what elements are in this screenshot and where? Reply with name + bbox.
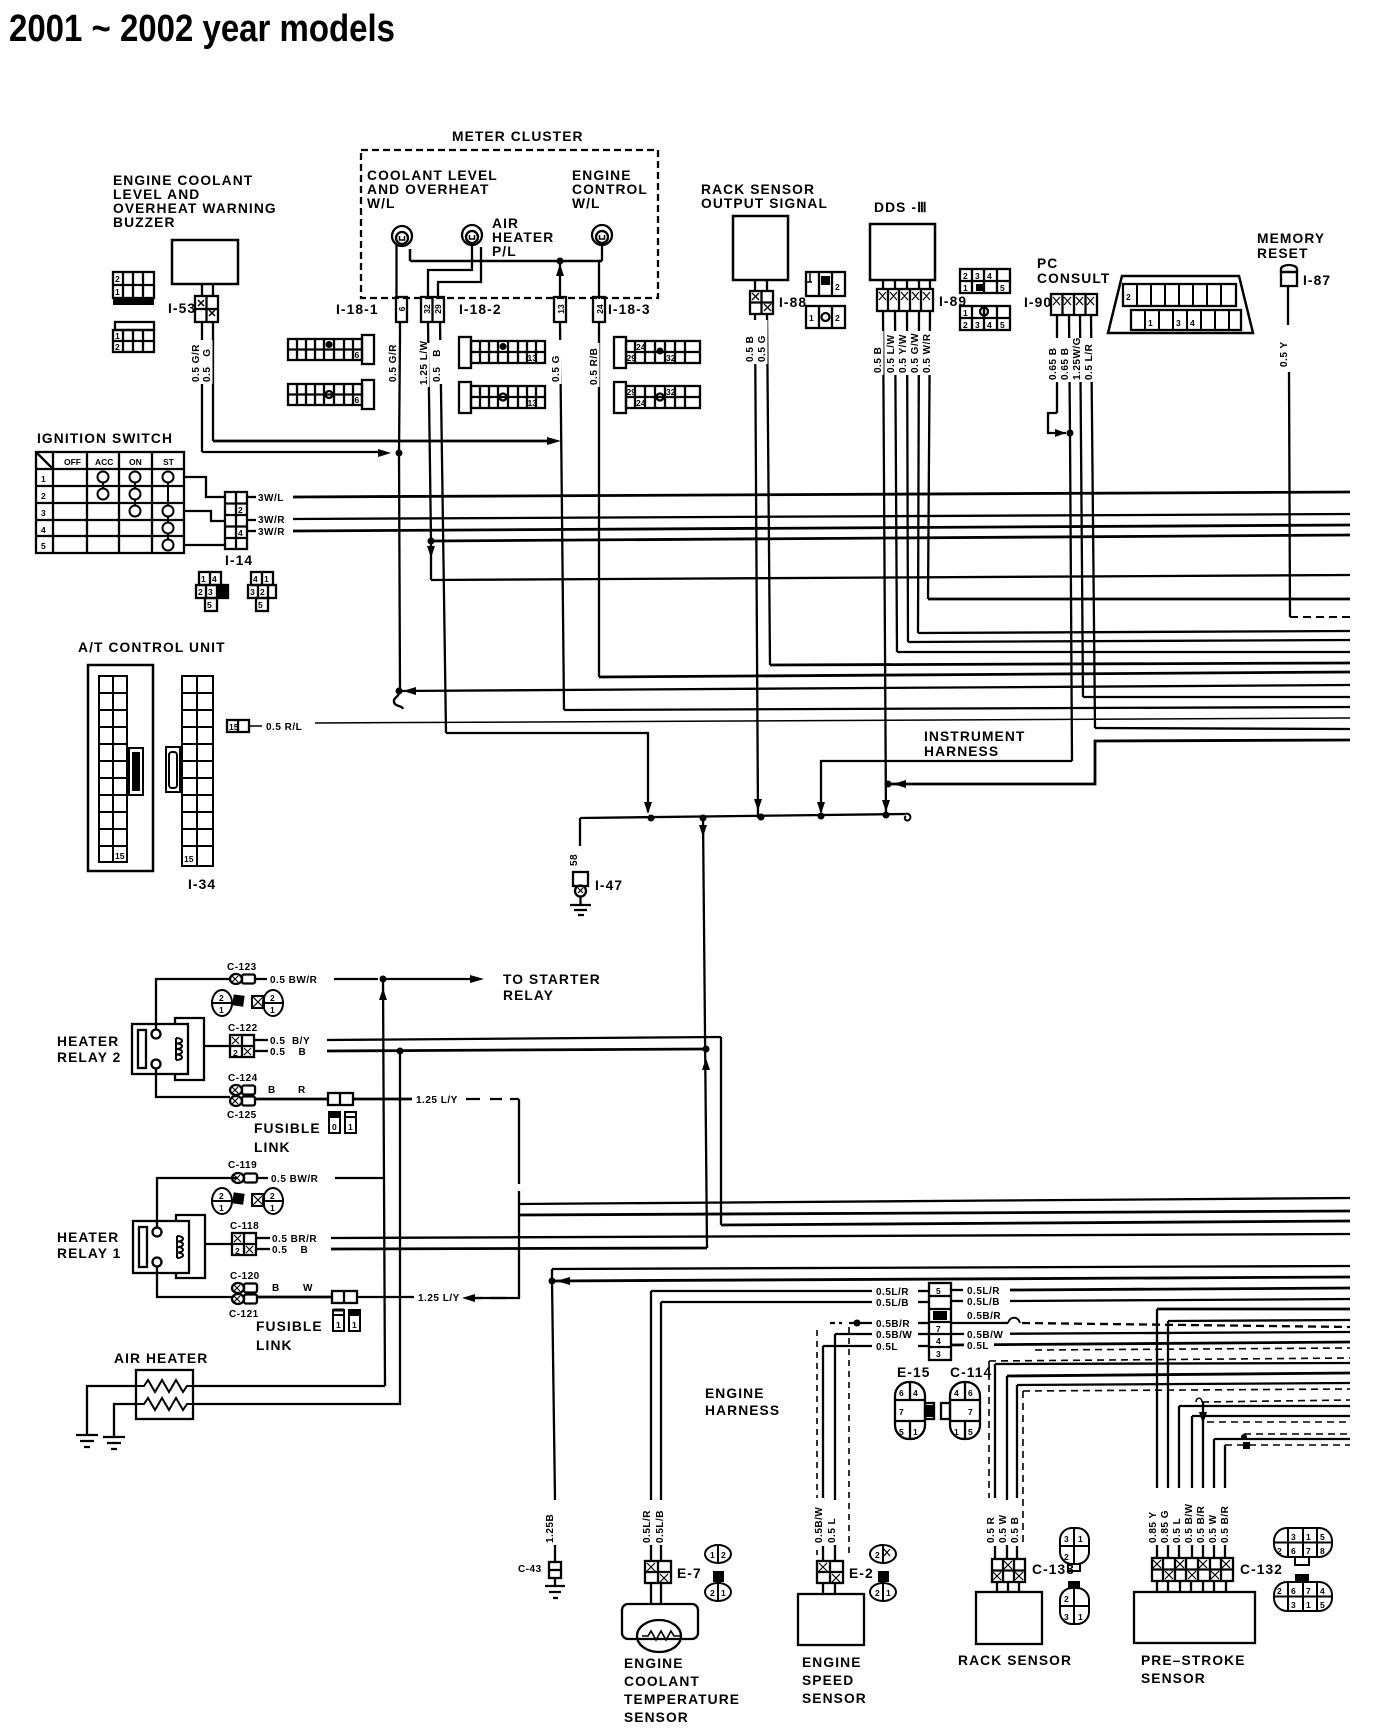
label 0.5 G/R (190, 340, 202, 384)
svg-text:ENGINE: ENGINE (624, 1656, 684, 1671)
svg-text:2: 2 (1277, 1586, 1282, 1596)
PC consult wires (1056, 315, 1058, 413)
svg-text:2: 2 (115, 274, 120, 284)
wire 1.25 L/Y upper (353, 1098, 412, 1101)
svg-text:LINK: LINK (254, 1140, 291, 1155)
0.5 B wire step down to junction row (446, 733, 648, 812)
svg-text:0.5 B: 0.5 B (745, 336, 756, 362)
svg-text:24: 24 (595, 304, 605, 314)
0.5B junction on x706 vertical (703, 1046, 710, 1053)
svg-text:SENSOR: SENSOR (1141, 1671, 1206, 1686)
svg-text:0.5 Y: 0.5 Y (1279, 341, 1290, 367)
wire pin24 to lamp3 (599, 261, 602, 299)
E-2 face pills (870, 1545, 896, 1601)
svg-text:15: 15 (184, 854, 194, 864)
arrow on 1.25L/W vertical (427, 546, 435, 558)
svg-text:0.5 BW/R: 0.5 BW/R (271, 1174, 319, 1185)
svg-text:2: 2 (270, 993, 275, 1003)
PC consult L/R wire corner to bus (1095, 728, 1350, 729)
svg-text:1: 1 (270, 1005, 275, 1015)
ignition contacts circles (98, 472, 174, 551)
engine harness bus C from B/Y drop (721, 1221, 1350, 1225)
E-2 wire labels (812, 1498, 824, 1546)
DDS B branch wire to bus via step (888, 740, 1350, 784)
svg-text:4: 4 (913, 1388, 918, 1398)
svg-text:4: 4 (987, 271, 992, 281)
svg-text:C-122: C-122 (228, 1023, 258, 1034)
svg-text:I-18-2: I-18-2 (459, 302, 502, 317)
svg-text:C-124: C-124 (228, 1073, 258, 1084)
svg-text:I-47: I-47 (595, 878, 623, 893)
air heater left wires to grounds (87, 1386, 136, 1435)
svg-text:6: 6 (899, 1388, 904, 1398)
svg-text:2: 2 (219, 1191, 224, 1201)
connector I-88 (750, 291, 773, 314)
svg-text:ACC: ACC (95, 457, 113, 467)
B/Y drop at x721 (720, 1037, 722, 1225)
C-132 face oval lower (1274, 1574, 1332, 1611)
svg-text:RELAY 1: RELAY 1 (57, 1246, 121, 1261)
svg-text:SPEED: SPEED (802, 1673, 854, 1688)
svg-text:3: 3 (936, 1349, 941, 1359)
svg-text:3W/R: 3W/R (258, 527, 285, 538)
svg-text:2: 2 (233, 1048, 238, 1058)
heater relay 1 body (133, 1215, 205, 1278)
svg-text:W: W (303, 1283, 313, 1294)
svg-text:2: 2 (710, 1588, 715, 1598)
svg-text:R: R (298, 1085, 306, 1096)
engine harness bus E from C-43 top (552, 1266, 1350, 1269)
svg-text:HEATER: HEATER (57, 1230, 119, 1245)
wire 0.5 G/R vertical from pin6 (399, 322, 401, 336)
relay1 coil bottom wire to C-120 (157, 1267, 232, 1297)
svg-text:I-90: I-90 (1024, 295, 1052, 310)
wire lamp1-lamp3 horizontal (410, 249, 602, 261)
svg-text:OUTPUT SIGNAL: OUTPUT SIGNAL (701, 196, 828, 211)
wire to fusible link 2 (255, 1098, 328, 1101)
wires box to connector I-88 (754, 280, 756, 291)
rack sensor body (976, 1582, 1042, 1644)
svg-text:OFF: OFF (64, 457, 81, 467)
bus wire from DDS 0.5 W/R corner (928, 598, 1350, 601)
lamp coolant level W/L (392, 226, 412, 246)
air heater right wires up (193, 1385, 385, 1387)
svg-text:0.5 B/W: 0.5 B/W (1184, 1503, 1195, 1543)
svg-text:1.25 L/Y: 1.25 L/Y (418, 1293, 460, 1304)
svg-text:0.5 L/R: 0.5 L/R (1084, 343, 1095, 380)
svg-text:B: B (272, 1283, 280, 1294)
svg-text:0.5B/R: 0.5B/R (876, 1319, 910, 1330)
svg-text:C-123: C-123 (227, 962, 257, 973)
svg-text:I-18-1: I-18-1 (336, 302, 379, 317)
wire lamp1 to pin6 (395, 245, 397, 297)
A/T right grid (166, 676, 213, 866)
svg-text:SENSOR: SENSOR (802, 1691, 867, 1706)
bus wire from DDS 0.5 G/W corner (918, 631, 1350, 633)
rack wire labels (984, 1498, 996, 1546)
svg-text:2: 2 (875, 1588, 880, 1598)
svg-text:5: 5 (968, 1427, 973, 1437)
C-118 connector (232, 1233, 256, 1256)
svg-text:RACK SENSOR: RACK SENSOR (958, 1653, 1072, 1668)
svg-text:1: 1 (352, 1320, 357, 1330)
harness 5-box connector column (929, 1283, 951, 1360)
svg-text:0.5 W: 0.5 W (998, 1514, 1009, 1543)
squiggle at row right end (905, 814, 911, 821)
svg-text:I-14: I-14 (225, 553, 253, 568)
svg-text:MEMORY: MEMORY (1257, 231, 1325, 246)
svg-text:4: 4 (987, 320, 992, 330)
svg-text:HEATER: HEATER (57, 1034, 119, 1049)
svg-text:0.5 G/W: 0.5 G/W (910, 333, 921, 373)
wire 0.5 Y from I-87 (1287, 286, 1289, 330)
svg-text:LEVEL AND: LEVEL AND (113, 187, 200, 202)
rack 0.5B arrow into row (754, 799, 762, 811)
vertical from starter junction down to air heater (383, 979, 385, 1386)
connector I-14 (225, 492, 247, 549)
svg-text:0.5B/W: 0.5B/W (814, 1507, 825, 1543)
svg-text:AND OVERHEAT: AND OVERHEAT (367, 182, 490, 197)
svg-text:5: 5 (41, 541, 46, 551)
bus wire ending at G/R junction with squiggle (399, 685, 1350, 691)
0.5L/R wires and labels (651, 1290, 872, 1292)
svg-text:4: 4 (1190, 318, 1195, 328)
C-124/C-125 bullet pair (230, 1085, 255, 1106)
connector pin 13 (554, 297, 566, 322)
wires ignition to I-14 (184, 477, 225, 497)
comb connector strip right-bottom (614, 382, 700, 413)
svg-text:15: 15 (115, 851, 125, 861)
svg-text:2001 ~ 2002 year models: 2001 ~ 2002 year models (9, 8, 395, 50)
svg-text:1.25B: 1.25B (545, 1514, 556, 1543)
svg-text:I-53: I-53 (168, 301, 196, 316)
engine harness bus A from 1.25L/Y vertical (519, 1198, 1350, 1204)
C-132 face oval upper (1274, 1528, 1332, 1565)
svg-text:1: 1 (1078, 1612, 1083, 1622)
rack sensor wire 0.5 R (995, 1363, 1350, 1364)
svg-text:SENSOR: SENSOR (624, 1710, 689, 1725)
svg-text:C-121: C-121 (229, 1309, 259, 1320)
connector pins 32/29 (I-18-2) (421, 297, 444, 322)
svg-text:ENGINE COOLANT: ENGINE COOLANT (113, 173, 253, 188)
svg-text:0.5 W: 0.5 W (1208, 1514, 1219, 1543)
0.5B/R right side with hop and dash (951, 1322, 1008, 1324)
label 0.5 G (201, 340, 213, 384)
svg-text:24: 24 (636, 342, 646, 352)
DDS-III connector I-89 (877, 280, 933, 311)
svg-text:C-119: C-119 (228, 1160, 257, 1171)
svg-text:IGNITION SWITCH: IGNITION SWITCH (37, 431, 173, 446)
svg-text:4: 4 (1320, 1586, 1325, 1596)
I-88 face grid lower (806, 306, 845, 328)
fusible link 1 box (332, 1291, 357, 1303)
svg-text:58: 58 (569, 854, 580, 866)
svg-text:1: 1 (115, 287, 120, 297)
0.5L wires (823, 1345, 872, 1347)
bus wire B1 from 1.25L/W junction (428, 538, 435, 545)
svg-text:7: 7 (899, 1407, 904, 1417)
svg-text:ENGINE: ENGINE (802, 1655, 862, 1670)
svg-text:CONTROL: CONTROL (572, 182, 648, 197)
PC consult 0.65B merge (1048, 413, 1066, 433)
svg-text:4: 4 (41, 525, 46, 535)
prestroke 0.5 L wire (1179, 1405, 1350, 1407)
prestroke 0.5 B/R wire with arrow (1202, 1402, 1204, 1558)
heater relay 2 body (132, 1018, 204, 1080)
svg-text:AIR: AIR (492, 216, 519, 231)
svg-text:0.5 W/R: 0.5 W/R (922, 333, 933, 373)
rack sensor dashed shield right (1023, 1389, 1350, 1391)
comb connector strip left-top (288, 335, 374, 364)
svg-text:AIR HEATER: AIR HEATER (114, 1351, 208, 1366)
3W/R label and wire 2 (247, 530, 256, 532)
svg-text:32: 32 (422, 304, 432, 314)
svg-text:3: 3 (1291, 1532, 1296, 1542)
svg-text:0.85 G: 0.85 G (1160, 1510, 1171, 1543)
svg-text:C-132: C-132 (1240, 1562, 1283, 1577)
squiggle wire end below G/R junction (394, 691, 403, 709)
svg-text:2: 2 (835, 282, 840, 292)
PC consult connector (1051, 294, 1097, 315)
svg-text:4: 4 (253, 574, 258, 584)
svg-text:0.85 Y: 0.85 Y (1148, 1511, 1159, 1543)
svg-text:0.5L: 0.5L (967, 1341, 989, 1352)
svg-text:1: 1 (809, 313, 814, 323)
comb connector strip mid-bottom (459, 382, 545, 413)
3W/L label and wire (247, 496, 256, 498)
engine harness bus B thick (519, 1211, 1350, 1215)
wire 1.25 L/W vertical from pin32 (428, 322, 431, 541)
svg-text:COOLANT LEVEL: COOLANT LEVEL (367, 168, 498, 183)
E-2 signal wire drops (822, 1346, 824, 1500)
svg-text:6: 6 (1291, 1586, 1296, 1596)
svg-text:W/L: W/L (572, 196, 601, 211)
connector I-53 (195, 296, 218, 322)
svg-text:2: 2 (835, 313, 840, 323)
wire 0.5 B (254, 1050, 268, 1052)
svg-text:2: 2 (235, 1246, 240, 1256)
rack sensor bundle: dashed shield corner (989, 1358, 1350, 1361)
svg-text:8: 8 (1320, 1546, 1325, 1556)
I-14 face grid right (248, 572, 276, 611)
svg-text:0: 0 (332, 1122, 337, 1132)
A/T outer box (88, 665, 153, 871)
svg-text:3W/L: 3W/L (258, 493, 284, 504)
svg-text:7: 7 (936, 1324, 941, 1334)
C-132 connector (1152, 1558, 1233, 1581)
svg-text:2: 2 (270, 1191, 275, 1201)
wire 0.5 G from I-53 turning right to 0.5 G node (213, 440, 556, 443)
svg-text:1: 1 (41, 474, 46, 484)
3W/R label and wire (247, 519, 256, 521)
relay2 face pills (212, 990, 283, 1016)
svg-text:2: 2 (260, 587, 265, 597)
buzzer connector-face grid lower (113, 322, 154, 352)
svg-text:FUSIBLE: FUSIBLE (254, 1121, 321, 1136)
svg-text:1: 1 (886, 1588, 891, 1598)
C-133 connector (992, 1559, 1025, 1582)
svg-text:0.5 B: 0.5 B (270, 1047, 306, 1058)
svg-text:4: 4 (212, 574, 217, 584)
0.5B/W wires (835, 1333, 872, 1335)
svg-text:5: 5 (258, 600, 263, 610)
diagnostic trapezoid connector (1108, 276, 1253, 333)
svg-text:6: 6 (1291, 1546, 1296, 1556)
svg-text:1: 1 (1078, 1534, 1083, 1544)
relay2 coil top wire to C-123 (156, 979, 230, 1029)
svg-text:0.5 B: 0.5 B (432, 349, 443, 382)
wire 0.5 G from I-88 (767, 314, 770, 665)
prestroke 0.5 W wire (1214, 1438, 1350, 1440)
ground symbol left (76, 1435, 98, 1447)
svg-text:METER CLUSTER: METER CLUSTER (452, 129, 584, 144)
svg-text:3: 3 (1291, 1600, 1296, 1610)
svg-text:1: 1 (264, 574, 269, 584)
svg-text:1: 1 (721, 1588, 726, 1598)
svg-text:5: 5 (936, 1286, 941, 1296)
svg-text:1: 1 (348, 1122, 353, 1132)
connector I-87 (1281, 265, 1297, 286)
meter cluster dashed box (361, 129, 658, 298)
I-88 face grid upper (806, 272, 845, 296)
svg-text:24: 24 (636, 398, 646, 408)
comb connector strip left-bottom (288, 380, 374, 409)
C-43 wire 1.25B down (552, 1281, 555, 1500)
A/T left grid (99, 676, 143, 862)
svg-text:PRE–STROKE: PRE–STROKE (1141, 1653, 1246, 1668)
wire 0.5 B/Y (254, 1039, 268, 1041)
svg-text:RELAY: RELAY (503, 988, 554, 1003)
svg-text:0.5 B: 0.5 B (873, 347, 884, 373)
svg-text:0.5 B: 0.5 B (1010, 1517, 1021, 1543)
buzzer box (172, 240, 238, 284)
wire to fusible link 1 (257, 1296, 332, 1299)
wire 0.5 B relay1 (256, 1248, 270, 1250)
ignition switch table (36, 452, 184, 553)
svg-text:A/T CONTROL UNIT: A/T CONTROL UNIT (78, 640, 226, 655)
svg-text:2: 2 (41, 491, 46, 501)
memory reset dashed stub (1290, 616, 1350, 618)
svg-text:0.5L/B: 0.5L/B (876, 1298, 909, 1309)
air heater box with elements (136, 1370, 193, 1419)
C-43 ground (545, 1578, 565, 1598)
rack sensor wire 0.5 W (1007, 1373, 1350, 1376)
svg-text:C-43: C-43 (518, 1564, 542, 1575)
svg-text:6: 6 (355, 350, 360, 360)
svg-text:ON: ON (129, 457, 142, 467)
wire 1.25 L/Y lower (357, 1296, 414, 1298)
wire 0.5 B from I-88 (755, 314, 758, 818)
svg-text:E-15: E-15 (897, 1365, 931, 1380)
svg-text:0.5 B/R: 0.5 B/R (1196, 1505, 1207, 1543)
svg-text:2: 2 (875, 1550, 880, 1560)
svg-text:1: 1 (1306, 1600, 1311, 1610)
DDS wires 5x (883, 311, 886, 818)
svg-text:2: 2 (238, 505, 243, 515)
svg-text:13: 13 (528, 398, 538, 408)
svg-text:3W/R: 3W/R (258, 515, 285, 526)
wire lamp3 down (601, 245, 603, 261)
svg-text:0.5 G: 0.5 G (202, 348, 213, 382)
fusible link 1 face (333, 1310, 360, 1331)
svg-text:5: 5 (1320, 1600, 1325, 1610)
PC consult merged B wire step to row (821, 761, 1072, 812)
relay1 face pills (212, 1188, 283, 1214)
svg-text:13: 13 (528, 353, 538, 363)
C-122 connector (230, 1035, 254, 1058)
svg-text:29: 29 (627, 353, 637, 363)
svg-text:29: 29 (433, 304, 443, 314)
svg-text:2: 2 (1064, 1594, 1069, 1604)
svg-text:0.5B/W: 0.5B/W (876, 1330, 912, 1341)
svg-text:4: 4 (238, 528, 243, 538)
svg-text:B: B (268, 1085, 276, 1096)
fusible link 2 box (328, 1093, 353, 1105)
relay2 coil bottom wire to C-124 (156, 1068, 230, 1097)
engine coolant temperature sensor body (622, 1583, 698, 1652)
svg-text:HEATER: HEATER (492, 230, 554, 245)
svg-text:3: 3 (1064, 1534, 1069, 1544)
svg-text:0.5L/B: 0.5L/B (967, 1297, 1000, 1308)
svg-text:0.5L/B: 0.5L/B (655, 1510, 666, 1543)
DDS face grid upper (960, 269, 1010, 293)
E-7 face pills (705, 1545, 731, 1601)
rack sensor wire 0.5 B (1017, 1383, 1350, 1385)
junction of air heater wire on relay2 B bus (397, 1048, 404, 1055)
svg-text:0.5 R: 0.5 R (986, 1516, 997, 1543)
svg-text:5: 5 (1320, 1532, 1325, 1542)
comb connector strip mid-top (459, 337, 545, 368)
shield dashed box around E-2 wires (816, 1330, 818, 1555)
svg-text:7: 7 (968, 1407, 973, 1417)
svg-text:0.5 BR/R: 0.5 BR/R (272, 1234, 317, 1245)
svg-text:0.5L: 0.5L (876, 1342, 898, 1353)
svg-text:3: 3 (41, 508, 46, 518)
0.5L/B wires and labels (661, 1301, 872, 1303)
svg-text:3: 3 (975, 271, 980, 281)
svg-text:0.65 B: 0.65 B (1048, 348, 1059, 380)
svg-text:0.5L/R: 0.5L/R (967, 1286, 1000, 1297)
svg-text:P/L: P/L (492, 244, 517, 259)
svg-text:1: 1 (270, 1203, 275, 1213)
svg-text:0.5 R/L: 0.5 R/L (266, 722, 302, 733)
0.5L/R drop to E-7 (650, 1291, 652, 1500)
svg-text:5: 5 (1000, 320, 1005, 330)
svg-text:5: 5 (899, 1427, 904, 1437)
wire 0.5 G/R from I-53 turning right to G/R vertical (202, 451, 384, 453)
C-119 bullet (232, 1173, 257, 1183)
C-123 bullet connector (230, 974, 255, 984)
bus wire B2 from 1.25L/W corner (431, 575, 1350, 580)
rack sensor output signal box (733, 216, 788, 280)
svg-text:1: 1 (954, 1427, 959, 1437)
prestroke 0.5 B/W wire (1192, 1415, 1350, 1417)
svg-text:0.5 B/R: 0.5 B/R (1220, 1505, 1231, 1543)
engine harness bus F ending at C-43 junction (552, 1277, 1350, 1281)
comb connector strip right-top (614, 337, 700, 368)
svg-text:C-114: C-114 (950, 1365, 992, 1380)
svg-text:1: 1 (1148, 318, 1153, 328)
svg-text:32: 32 (666, 387, 676, 397)
svg-text:0.5 B: 0.5 B (272, 1245, 308, 1256)
C-114 oval connector (941, 1382, 980, 1439)
svg-text:CONSULT: CONSULT (1037, 271, 1110, 286)
svg-text:13: 13 (556, 304, 566, 314)
wire 0.5 G/R from I-53 down (201, 322, 203, 452)
svg-text:1: 1 (963, 283, 968, 293)
svg-text:0.5 BW/R: 0.5 BW/R (270, 975, 318, 986)
svg-text:E-7: E-7 (677, 1566, 702, 1581)
